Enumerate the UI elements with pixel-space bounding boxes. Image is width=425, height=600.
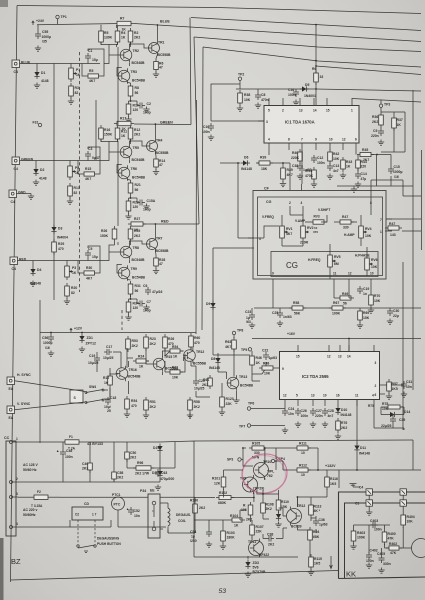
ground under C27: [310, 422, 316, 428]
svg-text:150K: 150K: [104, 133, 113, 137]
ground under R115: [308, 570, 314, 576]
svg-text:R47: R47: [342, 215, 348, 219]
svg-text:680K: 680K: [218, 501, 227, 505]
wire TR12 collector up: [296, 497, 298, 507]
svg-text:C23: C23: [245, 310, 251, 314]
IC U1 TDA1670A body: [264, 106, 359, 144]
svg-text:762: 762: [267, 474, 273, 478]
resistor R47 330: [337, 215, 354, 230]
wire D11 to 132V rail: [356, 453, 358, 471]
svg-text:C22: C22: [262, 349, 268, 353]
wire pin7 down: [301, 150, 303, 152]
resistor R61 2K2: [202, 375, 212, 389]
svg-text:10: 10: [301, 473, 305, 477]
svg-text:IN4148: IN4148: [209, 366, 220, 370]
svg-text:TR10: TR10: [263, 460, 271, 464]
svg-text:C24: C24: [288, 407, 294, 411]
pin 12 IC1 bottom: [342, 143, 344, 150]
svg-text:RV5: RV5: [334, 255, 341, 259]
svg-text:R48: R48: [263, 362, 269, 366]
svg-text:10: 10: [301, 451, 305, 455]
svg-text:2K2: 2K2: [199, 506, 205, 510]
pin 4 IC2 bottom: [373, 400, 375, 407]
svg-text:D19: D19: [153, 446, 159, 450]
capacitor C48 100n: [56, 449, 73, 459]
wire C48 taps: [62, 442, 64, 482]
wire TR7 collector to red bus: [154, 224, 156, 237]
svg-text:R104: R104: [230, 514, 238, 518]
svg-text:R400: R400: [388, 532, 396, 536]
wire D2 top stub: [35, 161, 37, 167]
transistor TR13 BC548B: [227, 375, 254, 391]
svg-text:68K: 68K: [313, 535, 320, 539]
svg-text:10K: 10K: [172, 376, 179, 380]
svg-text:10K: 10K: [407, 520, 414, 524]
svg-text:TP8: TP8: [237, 329, 243, 333]
svg-text:100n: 100n: [202, 130, 210, 134]
svg-text:KK: KK: [346, 570, 356, 579]
svg-text:R39: R39: [260, 156, 266, 160]
svg-text:GREEN: GREEN: [21, 158, 34, 162]
ground under C25: [277, 321, 283, 327]
wire R21 to R22/C4: [129, 196, 138, 203]
svg-text:0µ47: 0µ47: [92, 156, 100, 160]
wire right vertical x403: [402, 262, 404, 430]
svg-text:C18: C18: [110, 396, 116, 400]
svg-text:4148: 4148: [39, 177, 47, 181]
wire BZ section bottom border: [11, 571, 339, 581]
svg-text:5V6: 5V6: [253, 566, 259, 570]
svg-text:1K5: 1K5: [330, 482, 336, 486]
svg-text:IC1 TDA 1670A: IC1 TDA 1670A: [285, 120, 315, 125]
svg-text:▲: ▲: [56, 449, 59, 453]
ground under R34: [125, 315, 131, 321]
svg-text:C1: C1: [355, 502, 359, 506]
ground under C56: [48, 351, 54, 357]
svg-text:2K2: 2K2: [246, 518, 252, 522]
pin 5 IC2 bottom: [297, 400, 299, 407]
wire module left boundary riser: [213, 248, 254, 355]
wire R96 row: [127, 442, 175, 468]
svg-text:220n: 220n: [315, 414, 323, 418]
svg-text:TR2: TR2: [133, 49, 140, 53]
svg-text:6: 6: [375, 393, 377, 397]
wire sync supply riser x196: [195, 100, 198, 334]
pin 15 IC1 top: [326, 98, 328, 106]
svg-text:6M: 6M: [334, 262, 339, 266]
svg-text:(TIP29): (TIP29): [253, 487, 264, 491]
resistor C58 2K2: [112, 469, 124, 482]
svg-text:R404: R404: [407, 515, 415, 519]
wire TP3 branch: [381, 107, 405, 152]
svg-text:R53: R53: [132, 339, 138, 343]
svg-text:RV4: RV4: [365, 227, 372, 231]
svg-text:BLUE: BLUE: [160, 20, 170, 24]
resistor R30 4K7: [81, 266, 98, 281]
capacitor C1 15u: [85, 49, 98, 62]
ground under R14: [153, 169, 159, 175]
wire R400 net: [385, 525, 404, 548]
svg-text:TR16: TR16: [129, 368, 137, 372]
connector RED input: [10, 257, 27, 271]
diode D14: [388, 410, 411, 417]
wire R16/R12 to TR5/TR6: [101, 139, 131, 173]
svg-text:15K: 15K: [281, 505, 288, 509]
resistor R116 1K5: [325, 474, 338, 490]
wire red riser: [194, 37, 199, 224]
transistor TR8 BC548B: [120, 244, 145, 262]
svg-text:D11: D11: [360, 446, 366, 450]
svg-text:C1: C1: [88, 49, 92, 53]
diode D5 1N4001: [300, 83, 316, 98]
wire TP7 line: [251, 425, 285, 427]
resistor R38 10K: [238, 90, 251, 106]
svg-text:GND: GND: [18, 191, 26, 195]
ground under C8: [255, 103, 261, 109]
pin 14 IC1 top: [313, 98, 315, 106]
svg-text:1: 1: [16, 437, 18, 441]
svg-text:1K: 1K: [104, 381, 109, 385]
svg-text:BC556B: BC556B: [193, 362, 207, 366]
svg-text:TR12: TR12: [196, 350, 204, 354]
svg-text:4K7: 4K7: [286, 232, 292, 236]
svg-text:470: 470: [194, 341, 200, 345]
capacitor C35 22u/25: [381, 416, 405, 428]
svg-text:CD: CD: [84, 502, 89, 506]
svg-text:C38: C38: [267, 533, 273, 537]
wire C56 top: [50, 333, 52, 335]
resistor R6 47: [154, 59, 164, 73]
svg-text:47: 47: [159, 66, 163, 70]
ground under ZD1: [79, 347, 85, 353]
capacitor C14 47u/50: [355, 171, 367, 181]
pin 3 IC1 left: [258, 120, 264, 122]
resistor R25 2K2: [128, 226, 140, 242]
ground under C7: [143, 305, 149, 311]
svg-text:100n: 100n: [301, 414, 309, 418]
ground under C13: [327, 174, 333, 180]
capacitor C10 100n: [202, 123, 214, 134]
wire top border: [17, 6, 421, 14]
svg-text:15: 15: [296, 355, 300, 359]
svg-text:1K: 1K: [121, 134, 126, 138]
connector pin C4b: [400, 489, 406, 495]
resistor R5 130K: [99, 28, 113, 45]
svg-text:R75: R75: [368, 404, 374, 408]
capacitor C36 1u/63: [313, 518, 328, 527]
potentiometer P2 1K: [68, 163, 80, 180]
svg-text:C58: C58: [117, 471, 123, 475]
svg-text:D4: D4: [37, 268, 41, 272]
svg-text:R69: R69: [363, 311, 369, 315]
capacitor C15 1000u/16: [388, 165, 403, 179]
wire TR4 collector to green bus: [154, 125, 156, 139]
svg-text:C15A: C15A: [147, 199, 156, 203]
svg-text:V. SYNC: V. SYNC: [17, 402, 31, 406]
svg-text:7: 7: [380, 218, 382, 222]
ground at GND connector: [28, 194, 34, 200]
capacitor C24 10n: [282, 407, 294, 416]
capacitor C19b 10u/25: [88, 354, 100, 365]
ground under C14: [355, 182, 361, 188]
svg-text:BC548B: BC548B: [132, 158, 146, 162]
svg-text:50/60Hz: 50/60Hz: [23, 513, 36, 517]
svg-text:R4: R4: [121, 31, 125, 35]
diode D10 IN4148: [335, 406, 351, 418]
svg-text:180K: 180K: [227, 536, 236, 540]
svg-text:D9: D9: [206, 302, 210, 306]
ground under D2: [33, 180, 39, 186]
ground under D12: [275, 522, 281, 528]
svg-text:R29: R29: [58, 242, 64, 246]
wire right vertical x413: [412, 90, 414, 390]
svg-text:BC639: BC639: [291, 525, 302, 529]
svg-text:R6: R6: [312, 67, 316, 71]
wire R31 to R34/C7: [129, 294, 138, 304]
svg-text:BC558B: BC558B: [156, 249, 170, 253]
svg-text:4K7: 4K7: [85, 177, 91, 181]
svg-text:1µ/63: 1µ/63: [269, 356, 278, 360]
svg-text:C9: C9: [373, 129, 377, 133]
wire vertical x96: [95, 100, 97, 160]
resistor R4 1K: [115, 28, 126, 45]
terminal OSP4: [271, 459, 274, 462]
switch EE body: [148, 489, 160, 539]
svg-text:R2: R2: [134, 31, 138, 35]
potentiometer P3 1K: [65, 263, 77, 280]
wire down arrow left of KK: [330, 556, 333, 569]
capacitor C38b: [266, 533, 274, 547]
wire green riser: [190, 18, 191, 125]
connector V.SYNC: [7, 402, 31, 420]
transistor TR7 BC558B: [146, 237, 169, 254]
pin 9 module bottom: [272, 279, 274, 286]
ground under D1: [34, 83, 40, 89]
svg-text:ZD1: ZD1: [87, 336, 94, 340]
svg-text:SP3: SP3: [227, 458, 233, 462]
wire red bus segment: [143, 223, 199, 225]
svg-text:+12V: +12V: [74, 327, 83, 331]
svg-text:C48: C48: [66, 449, 72, 453]
annotation pink circle around TR10: [240, 451, 290, 496]
svg-text:22µ/25: 22µ/25: [381, 424, 392, 428]
wire R4/R2 to TR2/TR3: [101, 42, 131, 76]
diode D3 IN4004: [51, 225, 68, 240]
svg-text:H.AMP: H.AMP: [344, 233, 355, 237]
svg-text:100n: 100n: [317, 161, 325, 165]
wire blue to TR2 base: [104, 55, 109, 64]
pin 3 connector CC: [10, 496, 13, 499]
svg-text:2K2: 2K2: [266, 507, 272, 511]
svg-text:R103: R103: [227, 531, 235, 535]
svg-text:470µ/200: 470µ/200: [160, 477, 174, 481]
svg-text:TR6: TR6: [131, 167, 138, 171]
resistor R58b 2K2: [188, 397, 200, 413]
svg-text:C31: C31: [406, 380, 412, 384]
resistor C49 2K2: [82, 460, 92, 473]
ground under R69: [357, 323, 363, 329]
svg-text:14: 14: [313, 109, 317, 113]
svg-text:R38: R38: [244, 93, 250, 97]
wire supply bus line: [203, 47, 421, 67]
pin 10 IC1 bottom: [329, 143, 331, 150]
svg-text:R42: R42: [333, 152, 339, 156]
svg-text:/250: /250: [190, 539, 197, 543]
ground under R10: [125, 117, 131, 123]
wire connector common rail: [53, 64, 55, 301]
resistor R52 1K: [103, 373, 112, 388]
resistor R51 2K2: [144, 397, 156, 413]
svg-text:D6: D6: [244, 156, 248, 160]
wire P3 top: [66, 261, 68, 264]
svg-text:F31: F31: [33, 121, 39, 125]
wire R116 down: [311, 489, 327, 497]
svg-text:C4: C4: [14, 70, 18, 74]
svg-text:3: 3: [16, 492, 18, 496]
diode D2 4148: [33, 167, 46, 181]
pin 9 IC1 bottom: [315, 143, 317, 150]
ground under R28: [153, 268, 159, 274]
svg-text:R101: R101: [212, 477, 220, 481]
resistor R28 47: [154, 255, 166, 269]
resistor R108 2K2: [261, 500, 274, 516]
svg-text:4K *: 4K *: [314, 509, 321, 513]
svg-text:AC 220 v: AC 220 v: [23, 508, 37, 512]
svg-text:TR1: TR1: [158, 41, 165, 45]
svg-text:V.AMP: V.AMP: [295, 219, 306, 223]
ground under R3: [68, 99, 74, 105]
svg-text:120: 120: [133, 205, 139, 209]
svg-text:D2: D2: [40, 168, 44, 172]
wire R2 top stub: [100, 25, 102, 28]
capacitor C13 100n: [327, 163, 339, 173]
ground under C10: [208, 135, 214, 141]
svg-text:10: 10: [329, 138, 333, 142]
wire C58 taps: [113, 442, 115, 482]
capacitor C3 0u47: [85, 147, 100, 160]
ground under C16: [293, 100, 299, 106]
svg-text:R13: R13: [74, 186, 80, 190]
capacitor C402 100n: [366, 549, 378, 564]
transistor TR3 BC548B: [118, 68, 146, 84]
svg-text:P2: P2: [75, 166, 79, 170]
test point TP2: [238, 73, 244, 81]
pin 10 IC2 bottom: [324, 400, 326, 407]
svg-text:R12: R12: [103, 376, 109, 380]
svg-text:BC548B: BC548B: [128, 375, 142, 379]
svg-text:1K: 1K: [173, 355, 178, 359]
capacitor C54 1u/250: [190, 529, 212, 543]
svg-text:F1: F1: [69, 435, 73, 439]
svg-text:IN4148: IN4148: [341, 413, 352, 417]
svg-text:IN4148: IN4148: [241, 167, 252, 171]
svg-text:R46: R46: [256, 356, 262, 360]
resistor R11 1K: [115, 125, 127, 142]
svg-text:12: 12: [283, 394, 287, 398]
svg-text:C35: C35: [399, 418, 405, 422]
svg-text:7: 7: [301, 138, 303, 142]
resistor R30 4K7: [281, 165, 293, 182]
svg-text:C12: C12: [317, 156, 323, 160]
svg-text:13: 13: [311, 394, 315, 398]
resistor R402 47K: [386, 542, 402, 555]
resistor R41 470K: [305, 167, 316, 182]
resistor R6b 33: [312, 67, 323, 85]
svg-text:10K: 10K: [264, 372, 271, 376]
wire R45 net: [356, 150, 391, 171]
svg-text:DEGAUSSING: DEGAUSSING: [97, 537, 120, 541]
svg-text:C30: C30: [393, 309, 399, 313]
svg-text:RV6: RV6: [371, 258, 378, 262]
svg-text:5: 5: [268, 109, 270, 113]
svg-text:C405: C405: [377, 552, 385, 556]
capacitor C12 100n: [311, 155, 325, 165]
wire green to TR5 base: [100, 152, 109, 161]
wire gnd stub: [17, 193, 32, 195]
wire KK top net: [354, 525, 391, 553]
zener ZD1 ZPY12: [79, 334, 96, 346]
wire C24: [284, 406, 286, 408]
resistor R36 2K2: [372, 112, 383, 128]
module KK outer box: [339, 492, 425, 579]
svg-text:8: 8: [288, 138, 290, 142]
ground under C26: [295, 422, 301, 428]
wire TR8 to TR7 base: [129, 241, 145, 245]
resistor R34 120: [126, 299, 139, 315]
wire diode column: [159, 453, 161, 482]
connector BLUE input: [12, 60, 31, 74]
transistor TR14 BC556B: [183, 348, 206, 366]
svg-text:R51: R51: [150, 400, 156, 404]
resistor R27 1K: [128, 217, 146, 232]
svg-text:C7: C7: [147, 300, 151, 304]
wire red to TR8 base: [100, 252, 120, 261]
wire red video bus: [194, 37, 421, 52]
svg-text:R41: R41: [306, 169, 312, 173]
capacitor C2 100p: [137, 102, 151, 115]
IC U2 TDA2595 body: [280, 352, 380, 400]
svg-text:R58: R58: [293, 301, 299, 305]
fuse F1: [18, 435, 160, 451]
resistor R37 1K: [392, 115, 403, 131]
wire ground return y186: [337, 155, 413, 187]
capacitor C63 470u/200: [155, 469, 174, 481]
svg-text:D5: D5: [305, 83, 309, 87]
svg-text:53: 53: [219, 588, 227, 595]
wire module internal 1: [282, 150, 371, 279]
wire R111 net: [276, 448, 318, 470]
svg-text:R16: R16: [104, 128, 110, 132]
ground under TR13: [233, 398, 239, 404]
pin 6 IC2 right lower: [380, 393, 386, 395]
pin 12 module bottom: [348, 279, 350, 286]
svg-text:R39: R39: [287, 168, 293, 172]
svg-text:2K2: 2K2: [117, 476, 123, 480]
diode D8 IN4148: [209, 356, 221, 371]
resistor R107 22K: [250, 522, 264, 538]
wire C1/R5 node: [82, 49, 104, 76]
svg-text:R70: R70: [374, 294, 380, 298]
ground under R6: [153, 72, 159, 78]
ground under R13: [67, 199, 73, 205]
svg-text:R96: R96: [137, 461, 143, 465]
diode D6 IN4148: [241, 156, 253, 172]
svg-text:15µ: 15µ: [92, 58, 98, 62]
svg-text:R5: R5: [89, 69, 93, 73]
capacitor C8 470n: [255, 92, 269, 102]
resistor R113 4K: [309, 502, 322, 518]
svg-text:C26: C26: [301, 409, 307, 413]
